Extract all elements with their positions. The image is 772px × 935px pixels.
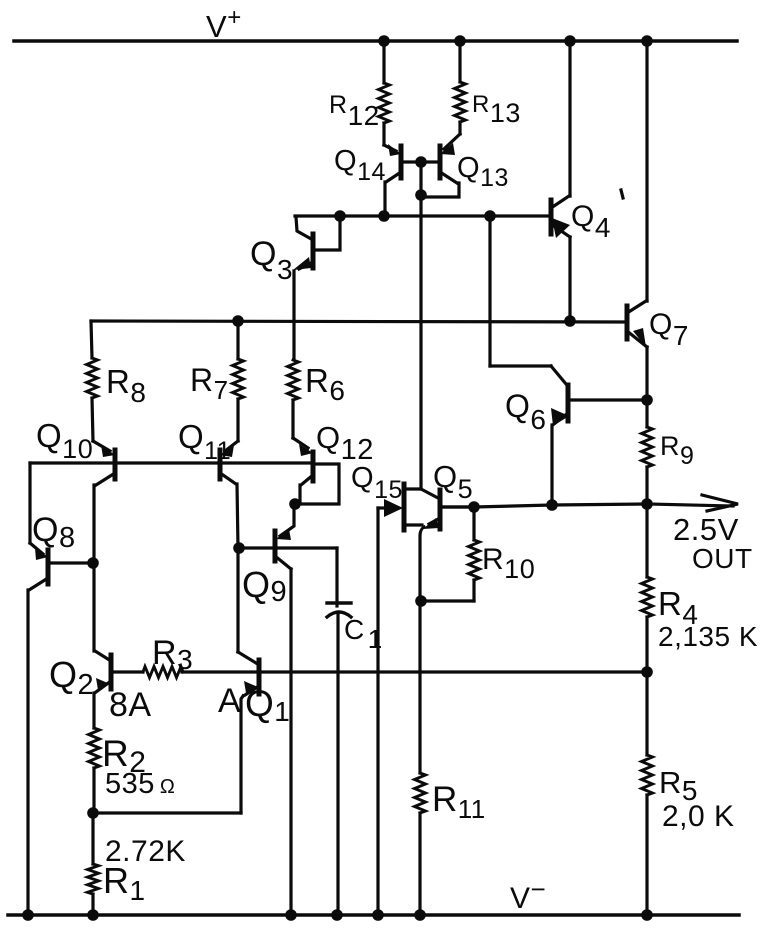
node dot R2 bottom / R1 top [87,807,99,819]
transistor Q10 [93,441,115,563]
stray mark [621,190,623,198]
node dot R7 top [232,315,244,327]
wire row y672 (R3 row to R4/R5 node) [182,670,647,673]
svg-text:8A: 8A [109,686,152,724]
wire Q10 collector to Q2 [92,563,95,651]
wire row y322 [91,321,625,322]
svg-text:OUT: OUT [692,543,753,574]
wire mirror node down to Q15/Q5 collectors [419,196,422,489]
node dot Q12 collector [289,498,301,510]
transistor Q6 [551,385,645,505]
node dot Q6 base / R9 top [641,394,653,406]
svg-text:2.5V: 2.5V [673,512,739,547]
wire mirror base node [419,162,422,196]
svg-text:2,135 K: 2,135 K [658,621,758,652]
transistor Q11 [220,441,238,548]
transistor Q9 [239,504,337,915]
wire Q6 collector from Q4 base node [490,216,566,384]
V- rail [8,913,739,917]
capacitor C1 [327,548,351,915]
node dot Q14 collector [378,210,390,222]
resistor R9 [642,400,653,503]
transistor Q8 [28,463,91,915]
wire Q1 emitter row to R2/R1 junction [94,811,241,814]
resistor R7 [233,321,244,441]
node dot R4/R5 junction [641,666,653,678]
transistor Q14 [384,144,421,216]
node dot Q4 base line [484,210,496,222]
svg-text:2,0 K: 2,0 K [662,800,735,833]
svg-text:A: A [218,682,241,720]
node dots V+ rail [378,35,390,47]
wire Q11 collector down to Q1 [236,548,239,652]
wire base row y463 [30,461,311,464]
node dot output / R9 bottom [641,498,653,510]
transistor Q12 [293,438,339,504]
node dot Q3 base tap [334,210,346,222]
node dot Q5 base tap [468,501,480,513]
node dots V- rail [22,909,34,921]
node dot Q13/Q14 bases [415,156,427,168]
node dot Q4 emitter row [564,315,576,327]
wire output row [443,504,647,507]
resistor R4 [642,505,653,672]
transistor Q15 [378,484,422,915]
V+ rail [14,39,737,43]
transistor Q1 [238,652,259,813]
node dot Q8 base / Q10 collector [87,557,99,569]
resistor R6 [288,360,299,438]
node dot R10 bottom / Q5 emitter [415,595,427,607]
resistor R3 [113,667,183,678]
resistor R13 [455,41,466,134]
transistor Q2 [94,651,111,728]
resistor R1 [88,813,99,915]
resistor R10 [422,509,480,601]
resistor R12 [379,41,390,145]
transistor Q7 [627,41,647,400]
transistor Q5 [420,489,472,601]
transistor Q3 [293,217,340,359]
node dot Q6 emitter tap [546,499,558,511]
node dot Q9 base / Q11 collector [233,542,245,554]
resistor R5 [642,672,653,915]
resistor R8 [87,321,98,441]
transistor Q4 [551,41,570,321]
resistor R11 [415,601,426,915]
transistor Q13 [423,134,460,197]
resistor R2 [89,728,100,813]
node dot mirror/collector loop [415,189,427,201]
wire output arrow [647,495,738,511]
wire node row y216 [295,214,549,217]
